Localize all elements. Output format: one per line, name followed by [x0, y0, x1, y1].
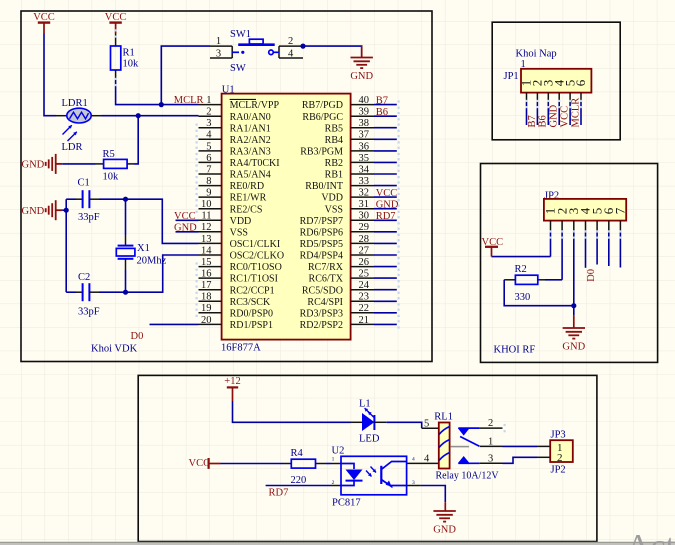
- svg-text:9: 9: [206, 188, 211, 199]
- svg-text:37: 37: [359, 130, 370, 141]
- svg-text:4: 4: [206, 130, 212, 141]
- svg-text:RC7/RX: RC7/RX: [308, 262, 344, 273]
- svg-text:VDD: VDD: [321, 193, 343, 204]
- svg-text:D0: D0: [131, 331, 144, 342]
- svg-text:RD5/PSP5: RD5/PSP5: [300, 239, 343, 250]
- svg-text:LED: LED: [359, 433, 380, 444]
- svg-text:27: 27: [359, 245, 370, 256]
- svg-text:4: 4: [412, 457, 415, 463]
- svg-text:RC3/SCK: RC3/SCK: [230, 297, 271, 308]
- svg-text:5: 5: [206, 141, 211, 152]
- svg-text:12: 12: [201, 222, 212, 233]
- svg-text:RD7: RD7: [376, 211, 396, 222]
- svg-text:2: 2: [206, 107, 211, 118]
- svg-text:VDD: VDD: [230, 216, 252, 227]
- svg-text:U1: U1: [222, 84, 235, 95]
- svg-text:RA0/AN0: RA0/AN0: [230, 112, 271, 123]
- svg-text:33pF: 33pF: [78, 307, 100, 318]
- svg-text:39: 39: [359, 107, 370, 118]
- svg-text:VCC: VCC: [189, 458, 211, 469]
- svg-text:U2: U2: [332, 445, 345, 456]
- svg-text:19: 19: [201, 303, 212, 314]
- svg-text:3: 3: [216, 48, 221, 59]
- svg-text:MCLR: MCLR: [570, 98, 581, 128]
- svg-text:23: 23: [359, 292, 370, 303]
- svg-text:33pF: 33pF: [78, 212, 100, 223]
- svg-text:20: 20: [201, 315, 212, 326]
- svg-text:OSC1/CLKI: OSC1/CLKI: [230, 239, 281, 250]
- svg-text:RE0/RD: RE0/RD: [230, 181, 264, 192]
- svg-text:OSC2/CLKO: OSC2/CLKO: [230, 251, 284, 262]
- svg-text:25: 25: [359, 269, 370, 280]
- svg-text:GND: GND: [22, 206, 45, 217]
- svg-text:B6: B6: [376, 107, 388, 118]
- svg-text:4: 4: [424, 453, 430, 464]
- svg-text:RA3/AN3: RA3/AN3: [230, 147, 271, 158]
- svg-text:14: 14: [201, 245, 212, 256]
- svg-text:GND: GND: [562, 342, 585, 353]
- svg-text:RC4/SPI: RC4/SPI: [307, 297, 343, 308]
- svg-text:C2: C2: [78, 272, 90, 283]
- svg-text:RC0/T1OSO: RC0/T1OSO: [230, 262, 282, 273]
- svg-text:RL1: RL1: [434, 412, 453, 423]
- svg-text:R4: R4: [291, 448, 304, 459]
- svg-text:KHOI RF: KHOI RF: [494, 345, 536, 356]
- svg-text:1: 1: [488, 437, 493, 448]
- svg-text:3: 3: [206, 118, 211, 129]
- svg-text:6: 6: [573, 79, 588, 86]
- svg-text:Khoi VDK: Khoi VDK: [91, 344, 138, 355]
- svg-text:RD6/PSP6: RD6/PSP6: [300, 227, 343, 238]
- svg-text:4: 4: [288, 48, 294, 59]
- svg-text:RA4/T0CKI: RA4/T0CKI: [230, 158, 280, 169]
- svg-text:GND: GND: [433, 525, 456, 536]
- svg-text:RE1/WR: RE1/WR: [230, 193, 267, 204]
- svg-text:29: 29: [359, 222, 370, 233]
- svg-text:RD2/PSP2: RD2/PSP2: [300, 320, 343, 331]
- svg-text:R1: R1: [123, 48, 135, 59]
- svg-text:Relay 10A/12V: Relay 10A/12V: [436, 471, 500, 482]
- svg-text:X1: X1: [137, 243, 150, 254]
- svg-text:RD1/PSP1: RD1/PSP1: [230, 320, 273, 331]
- svg-text:JP1: JP1: [504, 71, 519, 82]
- svg-text:RA1/AN1: RA1/AN1: [230, 123, 271, 134]
- svg-text:34: 34: [359, 164, 370, 175]
- svg-text:33: 33: [359, 176, 370, 187]
- svg-text:35: 35: [359, 153, 370, 164]
- svg-text:RB0/INT: RB0/INT: [305, 181, 343, 192]
- svg-text:+12: +12: [224, 376, 240, 387]
- svg-text:3: 3: [488, 453, 493, 464]
- svg-text:30: 30: [359, 211, 370, 222]
- svg-text:D0: D0: [586, 269, 597, 282]
- svg-text:RA2/AN2: RA2/AN2: [230, 135, 271, 146]
- svg-text:2: 2: [288, 36, 293, 47]
- svg-text:RB7/PGD: RB7/PGD: [302, 100, 343, 111]
- svg-text:SW: SW: [230, 63, 246, 74]
- svg-text:RB4: RB4: [325, 135, 343, 146]
- svg-text:2: 2: [488, 418, 493, 429]
- svg-text:VCC: VCC: [376, 188, 398, 199]
- svg-text:10: 10: [201, 199, 212, 210]
- svg-text:10k: 10k: [123, 59, 140, 70]
- svg-text:RB2: RB2: [325, 158, 343, 169]
- svg-text:15: 15: [201, 257, 212, 268]
- svg-text:GND: GND: [350, 71, 373, 82]
- svg-text:16F877A: 16F877A: [221, 342, 261, 353]
- svg-text:1: 1: [216, 36, 221, 47]
- svg-text:7: 7: [613, 207, 628, 214]
- svg-text:RC1/T1OSI: RC1/T1OSI: [230, 274, 278, 285]
- svg-text:JP3: JP3: [551, 430, 566, 441]
- svg-text:RC2/CCP1: RC2/CCP1: [230, 285, 275, 296]
- svg-text:330: 330: [515, 292, 531, 303]
- svg-text:VCC: VCC: [560, 106, 571, 128]
- svg-text:21: 21: [359, 315, 370, 326]
- svg-text:Khoi Nap: Khoi Nap: [516, 49, 557, 60]
- svg-text:220: 220: [291, 475, 307, 486]
- svg-text:RC6/TX: RC6/TX: [309, 274, 344, 285]
- svg-text:B7: B7: [376, 95, 388, 106]
- svg-text:17: 17: [201, 280, 212, 291]
- svg-text:GND: GND: [174, 222, 197, 233]
- svg-text:LDR1: LDR1: [62, 98, 88, 109]
- svg-text:R2: R2: [515, 264, 527, 275]
- svg-text:RB6/PGC: RB6/PGC: [302, 112, 343, 123]
- svg-text:1: 1: [206, 95, 211, 106]
- svg-text:C1: C1: [78, 177, 90, 188]
- svg-text:R5: R5: [103, 149, 115, 160]
- svg-text:RB3/PGM: RB3/PGM: [300, 147, 343, 158]
- svg-text:2: 2: [332, 480, 335, 486]
- svg-text:RD7: RD7: [269, 488, 289, 499]
- svg-text:2: 2: [557, 452, 563, 464]
- svg-text:VCC: VCC: [174, 211, 196, 222]
- svg-text:22: 22: [359, 303, 370, 314]
- svg-text:RB1: RB1: [325, 170, 343, 181]
- svg-text:32: 32: [359, 188, 370, 199]
- svg-text:7: 7: [206, 164, 211, 175]
- svg-text:18: 18: [201, 292, 212, 303]
- svg-text:RE2/CS: RE2/CS: [230, 204, 263, 215]
- svg-text:RD0/PSP0: RD0/PSP0: [230, 308, 273, 319]
- svg-text:Activ: Activ: [626, 528, 675, 545]
- svg-text:6: 6: [206, 153, 211, 164]
- svg-text:RD3/PSP3: RD3/PSP3: [300, 308, 343, 319]
- svg-text:26: 26: [359, 257, 370, 268]
- svg-text:11: 11: [201, 211, 211, 222]
- svg-text:GND: GND: [376, 200, 399, 211]
- svg-text:SW1: SW1: [230, 29, 251, 40]
- svg-text:B6: B6: [538, 115, 549, 127]
- svg-text:38: 38: [359, 118, 370, 129]
- svg-text:40: 40: [359, 95, 370, 106]
- svg-text:PC817: PC817: [332, 498, 361, 509]
- svg-text:28: 28: [359, 234, 370, 245]
- svg-text:36: 36: [359, 141, 370, 152]
- svg-text:GND: GND: [22, 159, 45, 170]
- svg-text:VSS: VSS: [325, 204, 343, 215]
- svg-text:5: 5: [424, 418, 429, 429]
- svg-text:MCLR/VPP: MCLR/VPP: [230, 100, 280, 111]
- svg-text:31: 31: [359, 199, 370, 210]
- svg-text:1: 1: [332, 457, 335, 463]
- svg-text:RD7/PSP7: RD7/PSP7: [300, 216, 343, 227]
- svg-text:JP2: JP2: [551, 465, 566, 476]
- svg-text:RD4/PSP4: RD4/PSP4: [300, 251, 343, 262]
- svg-text:16: 16: [201, 269, 212, 280]
- svg-text:RC5/SDO: RC5/SDO: [302, 285, 343, 296]
- svg-text:8: 8: [206, 176, 211, 187]
- svg-text:B7: B7: [527, 115, 538, 127]
- svg-text:LDR: LDR: [62, 142, 83, 153]
- svg-text:RA5/AN4: RA5/AN4: [230, 170, 271, 181]
- svg-text:13: 13: [201, 234, 212, 245]
- svg-text:RB5: RB5: [325, 123, 343, 134]
- svg-text:VSS: VSS: [230, 227, 248, 238]
- svg-text:24: 24: [359, 280, 370, 291]
- svg-text:GND: GND: [549, 104, 560, 127]
- svg-text:10k: 10k: [103, 172, 120, 183]
